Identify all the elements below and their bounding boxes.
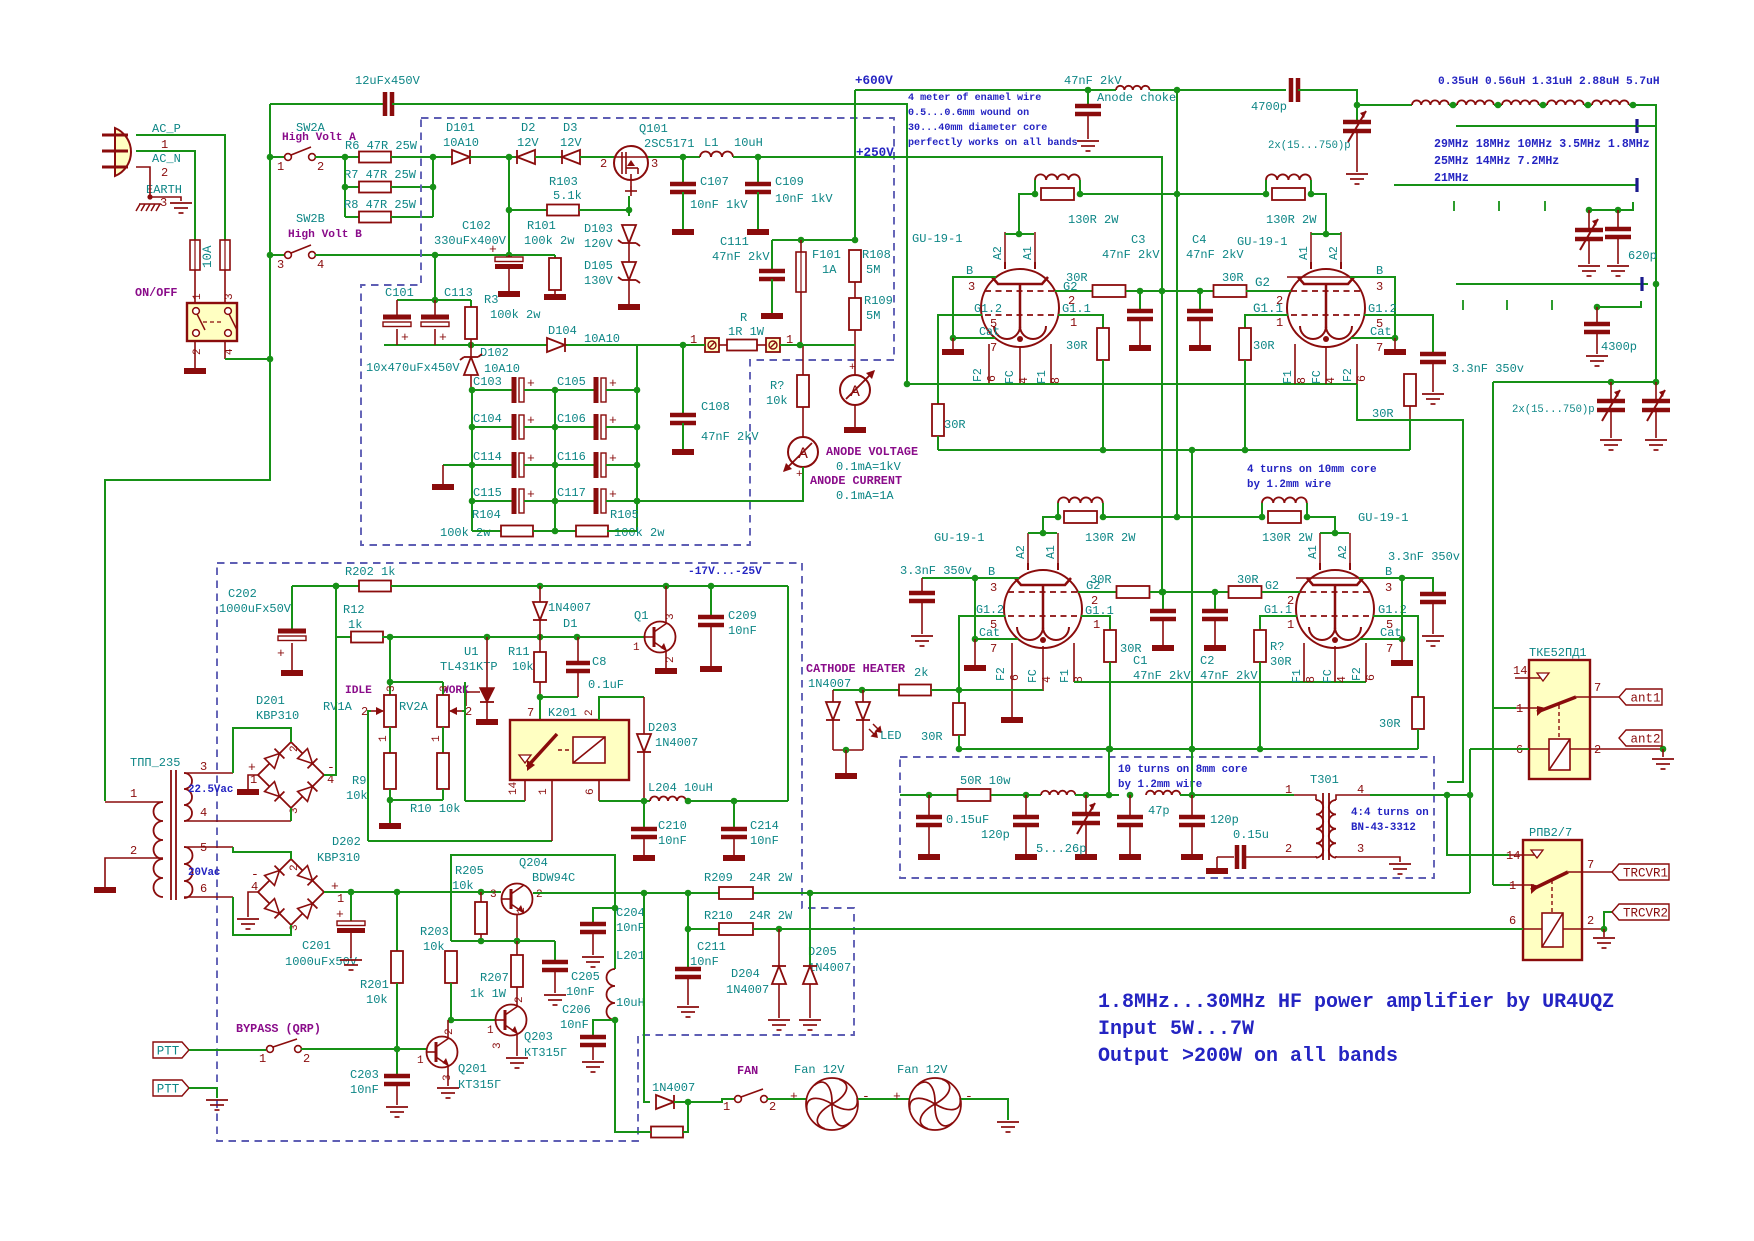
- junction ant bus T301: [1467, 792, 1474, 799]
- wire C2 stem: [1214, 592, 1216, 611]
- ground U1: [476, 719, 498, 725]
- zener D102: [464, 357, 478, 375]
- junction bias t1 g11: [1100, 447, 1107, 454]
- svg-text:7: 7: [990, 341, 997, 355]
- wire meter node: [772, 239, 855, 241]
- junction t4 cat: [1399, 636, 1406, 643]
- resistor 130R t2: [1272, 188, 1305, 200]
- wire t4 B-cat: [1401, 578, 1403, 639]
- svg-text:C209: C209: [728, 609, 757, 623]
- svg-text:100k 2w: 100k 2w: [440, 526, 491, 540]
- svg-text:КТ315Г: КТ315Г: [524, 1046, 567, 1060]
- resistor 30R g2 t1: [1093, 285, 1126, 297]
- wire C111 stem: [771, 240, 773, 271]
- wire Q203 base: [451, 1019, 495, 1021]
- svg-text:Cat: Cat: [1380, 626, 1402, 640]
- svg-text:2: 2: [600, 157, 607, 171]
- TPP pin2 lead: [105, 858, 163, 887]
- resistor R108: [849, 250, 861, 282]
- wire t3 anode join: [1028, 532, 1057, 534]
- svg-text:L1: L1: [704, 136, 718, 150]
- svg-text:BYPASS (QRP): BYPASS (QRP): [236, 1022, 321, 1036]
- resistor 30R g12 t1: [932, 404, 944, 436]
- rpv pin2 wire: [1563, 928, 1604, 930]
- svg-text:G1.2: G1.2: [974, 302, 1002, 316]
- capacitor 0.15uF: [916, 817, 942, 825]
- svg-text:1: 1: [337, 892, 344, 906]
- varcap620 down: [1588, 239, 1590, 264]
- diode D1 1N4007: [533, 602, 547, 620]
- C113 stem top: [434, 300, 436, 315]
- ground 015uF: [918, 854, 940, 860]
- svg-text:2: 2: [1587, 914, 1594, 928]
- ground fan: [997, 1122, 1019, 1132]
- wire tank to chain: [1357, 104, 1412, 106]
- junction F101 top: [798, 237, 805, 244]
- svg-text:C201: C201: [302, 939, 331, 953]
- svg-text:10nF: 10nF: [750, 834, 779, 848]
- wire t1 anode up: [1019, 194, 1035, 234]
- wire mains bus vertical: [269, 104, 271, 359]
- C211 down: [687, 977, 689, 1005]
- t2 F1 pin: [1294, 344, 1296, 384]
- t3 F1 pin: [1073, 643, 1075, 682]
- junction t4 net left: [1259, 514, 1266, 521]
- svg-text:10nF 1kV: 10nF 1kV: [690, 198, 748, 212]
- D205 bot lead: [809, 984, 811, 1018]
- wire heater bus bot: [1074, 681, 1366, 683]
- junction C113 top feed: [432, 252, 439, 259]
- svg-text:3: 3: [968, 280, 975, 294]
- R101 bot lead: [554, 290, 556, 294]
- wire fan res left: [615, 1127, 651, 1132]
- svg-text:F2: F2: [1342, 368, 1355, 382]
- svg-text:1: 1: [259, 1052, 266, 1066]
- wire C106 left: [555, 426, 596, 428]
- svg-text:120p: 120p: [1210, 813, 1239, 827]
- svg-text:0.15uF: 0.15uF: [946, 813, 989, 827]
- junction bank left 390: [469, 387, 476, 394]
- svg-text:4: 4: [200, 806, 207, 820]
- svg-text:C4: C4: [1192, 233, 1206, 247]
- svg-text:10A10: 10A10: [443, 136, 479, 150]
- Q101 gate down: [630, 180, 632, 196]
- svg-text:21MHz: 21MHz: [1434, 172, 1469, 185]
- svg-text:C104: C104: [473, 412, 502, 426]
- resistor 30R cat t2: [1404, 374, 1416, 406]
- C101 stem bot: [396, 329, 398, 345]
- C8 bot lead: [577, 671, 579, 697]
- wire filter mid2: [1180, 794, 1294, 796]
- svg-text:10k: 10k: [366, 993, 388, 1007]
- ground C3: [1129, 345, 1151, 351]
- capacitor 47p: [1117, 817, 1143, 825]
- switch band row3 line: [1456, 283, 1648, 285]
- svg-text:1: 1: [378, 735, 390, 742]
- svg-text:A2: A2: [1015, 545, 1028, 559]
- wire C204 top: [593, 908, 615, 924]
- onoff pin4 lead: [224, 341, 226, 359]
- K201 pin1 lead: [551, 780, 553, 841]
- junction R column left top: [342, 154, 349, 161]
- 120p b stem: [1191, 795, 1193, 817]
- wire C105 right: [606, 389, 637, 391]
- ground C111: [761, 313, 783, 319]
- R109 down: [854, 330, 856, 375]
- ground TPP pin2: [94, 887, 116, 893]
- ground C214: [723, 855, 745, 861]
- svg-text:B: B: [966, 264, 973, 278]
- svg-text:100k 2w: 100k 2w: [614, 526, 665, 540]
- svg-text:+: +: [849, 362, 856, 374]
- wire bias chain down: [1108, 749, 1110, 795]
- relay K201 coil: [573, 737, 605, 763]
- choke cap down: [1087, 114, 1089, 139]
- R? top lead: [802, 345, 804, 375]
- bridge D202 d: [265, 871, 280, 886]
- wire 130R t1 loop: [1034, 180, 1036, 194]
- svg-text:7: 7: [527, 706, 534, 720]
- svg-text:2: 2: [465, 705, 472, 719]
- resistor R101: [549, 258, 561, 290]
- junction rail637 C8: [574, 634, 581, 641]
- svg-text:2: 2: [444, 1028, 456, 1035]
- wire t3 G12: [959, 616, 1005, 703]
- junction R col right top: [430, 154, 437, 161]
- svg-text:+: +: [893, 1089, 901, 1104]
- wire C104 left: [472, 426, 514, 428]
- 47p down: [1129, 825, 1131, 854]
- zener D105: [622, 262, 636, 280]
- junction chain end: [1630, 102, 1637, 109]
- wire t4 B: [1359, 577, 1402, 579]
- 620p stem: [1617, 210, 1619, 229]
- outvarA stem: [1610, 382, 1612, 399]
- svg-text:Q201: Q201: [458, 1062, 487, 1076]
- wire emitter node: [451, 940, 555, 942]
- junction bias3 rq: [1257, 746, 1264, 753]
- diode D203: [637, 734, 651, 752]
- svg-text:C8: C8: [592, 655, 606, 669]
- ground outvarB: [1645, 440, 1667, 450]
- svg-text:47nF 2kV: 47nF 2kV: [1200, 669, 1258, 683]
- 30R t2 down: [1409, 406, 1411, 420]
- wire R210 feed: [688, 893, 719, 929]
- ground zeners: [618, 304, 640, 310]
- svg-text:3: 3: [492, 1042, 504, 1049]
- svg-text:7: 7: [1376, 341, 1383, 355]
- svg-text:F101: F101: [812, 248, 841, 262]
- 4300p stem: [1596, 307, 1598, 324]
- svg-text:+250V: +250V: [856, 146, 894, 160]
- svg-text:G1.1: G1.1: [1062, 302, 1091, 316]
- wire C103 left: [472, 389, 514, 391]
- svg-text:G2: G2: [1265, 579, 1279, 593]
- svg-text:D202: D202: [332, 835, 361, 849]
- variable capacitor out A: [1597, 401, 1625, 410]
- svg-text:R?: R?: [1270, 640, 1284, 654]
- wire rpv pin14 feed: [1447, 795, 1509, 855]
- svg-text:C113: C113: [444, 286, 473, 300]
- RV2A wiper: [450, 710, 462, 712]
- junction 2k g12: [956, 687, 963, 694]
- wire t3 B-cat: [974, 578, 976, 639]
- svg-text:C114: C114: [473, 450, 502, 464]
- junction outvar A: [1608, 379, 1615, 386]
- junction outvar B: [1653, 379, 1660, 386]
- svg-text:6: 6: [1509, 914, 1516, 928]
- ground outvarA: [1600, 440, 1622, 450]
- tke pin2 wire: [1570, 748, 1663, 750]
- C3 down: [1139, 319, 1141, 345]
- resistor 130R t1: [1041, 188, 1074, 200]
- svg-text:TL431KTP: TL431KTP: [440, 660, 498, 674]
- svg-text:1: 1: [516, 907, 528, 914]
- wire heater diodes top: [833, 689, 899, 691]
- t1 F1 pin: [1050, 344, 1052, 384]
- svg-text:LED: LED: [880, 729, 902, 743]
- resistor R9: [384, 753, 396, 789]
- ground 526p: [1075, 854, 1097, 860]
- junction R108 top: [852, 237, 859, 244]
- inductor T301 primary: [1316, 800, 1323, 858]
- capacitor C109: [745, 184, 771, 192]
- svg-text:Cat: Cat: [979, 626, 1000, 640]
- ground C107: [672, 229, 694, 235]
- capacitor C204: [580, 924, 606, 932]
- wire t1 anode join: [1005, 233, 1034, 235]
- wire C4 stem: [1199, 291, 1201, 311]
- svg-text:KBP310: KBP310: [256, 709, 299, 723]
- svg-text:R209: R209: [704, 871, 733, 885]
- inductor 130R t1: [1035, 174, 1080, 180]
- TPP pin6 lead: [184, 896, 233, 898]
- capacitor C211: [675, 969, 701, 977]
- resistor R109: [849, 298, 861, 330]
- wire 12uF left: [270, 103, 385, 105]
- svg-text:7: 7: [990, 642, 997, 656]
- svg-text:R109: R109: [864, 294, 893, 308]
- svg-text:+: +: [609, 376, 617, 391]
- svg-text:+: +: [609, 451, 617, 466]
- svg-text:R205: R205: [455, 864, 484, 878]
- wire C114 right: [524, 464, 555, 466]
- svg-text:5: 5: [200, 841, 207, 855]
- wire C210 stem: [643, 801, 645, 829]
- inductor TPP sec2: [184, 847, 193, 898]
- heater gnd lead: [845, 750, 847, 773]
- svg-text:1: 1: [161, 138, 168, 152]
- svg-text:10x470uFx450V: 10x470uFx450V: [366, 361, 460, 375]
- ground C206: [582, 1062, 604, 1072]
- wire R202-R12: [335, 586, 337, 637]
- R108-R109: [854, 282, 856, 298]
- wire screw-rail right: [780, 344, 855, 346]
- bridge D202 d: [298, 904, 313, 919]
- ground C209: [700, 666, 722, 672]
- wire R7 right: [391, 186, 433, 188]
- switch ON/OFF box: [187, 303, 237, 341]
- junction R201 ptt: [394, 1046, 401, 1053]
- ground t4 cat: [1391, 660, 1413, 666]
- junction R11 C8: [537, 694, 544, 701]
- wire fan2 out: [961, 1099, 1008, 1120]
- capacitor C214: [721, 829, 747, 837]
- 3.3nF t3 stem: [921, 578, 923, 593]
- junction 120p a: [1023, 792, 1030, 799]
- svg-text:10A10: 10A10: [584, 332, 620, 346]
- svg-text:47nF 2kV: 47nF 2kV: [712, 250, 770, 264]
- svg-text:3: 3: [277, 258, 284, 272]
- junction bank left 501: [469, 498, 476, 505]
- wire R201 top: [396, 892, 398, 951]
- svg-text:D204: D204: [731, 967, 760, 981]
- resistor R105: [576, 526, 608, 537]
- resistor R104: [501, 526, 533, 537]
- ground Q1: [655, 668, 677, 674]
- ground 3.3nF t3: [911, 636, 933, 646]
- junction C109: [755, 154, 762, 161]
- wire t4 cat: [1360, 638, 1402, 640]
- svg-text:FAN: FAN: [737, 1064, 758, 1078]
- wire T301 out: [1370, 794, 1470, 796]
- wire D202 in top: [233, 847, 291, 859]
- svg-text:R9: R9: [352, 774, 366, 788]
- junction 47nF choke: [1085, 87, 1092, 94]
- U1 ref lead: [466, 692, 480, 706]
- svg-text:+: +: [527, 487, 535, 502]
- tke pin14 wire: [1515, 677, 1543, 679]
- junction bias bot in: [1189, 746, 1196, 753]
- svg-text:1N4007: 1N4007: [652, 1081, 695, 1095]
- wire Q101 source down: [628, 196, 630, 216]
- svg-text:Q1: Q1: [634, 609, 648, 623]
- wire R9-R10 link: [390, 799, 443, 801]
- D1 bot lead: [539, 620, 541, 637]
- wire chain g3: [1539, 104, 1547, 106]
- svg-text:2: 2: [536, 889, 543, 901]
- junction C4: [1197, 288, 1204, 295]
- wire t1 B: [953, 277, 996, 338]
- junction bias3 mid: [1189, 746, 1196, 753]
- resistor R210: [719, 923, 753, 935]
- ground t2 cat: [1384, 349, 1406, 355]
- svg-text:2: 2: [317, 160, 324, 174]
- wire D3-Q101: [580, 156, 614, 158]
- wire C116 right: [606, 464, 637, 466]
- junction R205 bot: [478, 938, 485, 945]
- hd1 bot: [832, 720, 834, 750]
- capacitor 120p a: [1013, 817, 1039, 825]
- svg-text:30R: 30R: [1066, 339, 1088, 353]
- R205 top lead: [480, 892, 482, 902]
- ground C211: [677, 1007, 699, 1017]
- wire R10 bot: [442, 789, 444, 800]
- svg-text:+: +: [790, 1089, 798, 1104]
- Q203 collector: [516, 1005, 518, 1006]
- svg-text:50R 10w: 50R 10w: [960, 774, 1011, 788]
- junction bank right 427: [634, 424, 641, 431]
- switch SW2A: [285, 154, 292, 161]
- svg-text:R11: R11: [508, 645, 530, 659]
- junction bias3 g12: [956, 746, 963, 753]
- wire t2 F2 down: [1357, 384, 1410, 420]
- switch band row2 contact: [1635, 178, 1638, 192]
- svg-text:KBP310: KBP310: [317, 851, 360, 865]
- svg-text:0.5...0.6mm wound on: 0.5...0.6mm wound on: [908, 107, 1029, 119]
- svg-text:BDW94C: BDW94C: [532, 871, 575, 885]
- switch band row3 contact: [1640, 277, 1643, 291]
- svg-text:B: B: [1376, 264, 1383, 278]
- junction t2 net right: [1308, 191, 1315, 198]
- svg-text:+: +: [439, 330, 447, 345]
- wire bias bus top: [938, 449, 1410, 451]
- svg-text:+: +: [277, 646, 285, 661]
- svg-text:30R: 30R: [1379, 717, 1401, 731]
- svg-text:10nF: 10nF: [658, 834, 687, 848]
- ground D201 plus: [237, 789, 259, 795]
- wire C109 stem: [757, 157, 759, 184]
- junction SW2B in: [267, 252, 274, 259]
- junction HV pump: [506, 154, 513, 161]
- svg-text:C108: C108: [701, 400, 730, 414]
- wire D2-D3: [535, 156, 562, 158]
- svg-text:8: 8: [1305, 676, 1318, 683]
- ground trcvr2: [1593, 938, 1615, 948]
- tube U-top-right GU-19-1: [1287, 262, 1365, 347]
- junction rpv feed: [1444, 792, 1451, 799]
- svg-text:4 meter of enamel wire: 4 meter of enamel wire: [908, 92, 1041, 104]
- 015uF stem: [928, 795, 930, 817]
- capacitor 0.15u: [1237, 845, 1244, 869]
- fuse1 lead: [194, 270, 196, 303]
- svg-text:0.15u: 0.15u: [1233, 828, 1269, 842]
- svg-text:1N4007: 1N4007: [808, 961, 851, 975]
- svg-text:6: 6: [1009, 674, 1022, 681]
- wire t1 G12: [938, 315, 982, 404]
- C102 bot lead: [508, 267, 510, 291]
- ground heater: [835, 773, 857, 779]
- wire +600V vertical: [854, 90, 856, 240]
- hd1 top: [832, 690, 834, 702]
- junction bias3 g11: [1107, 746, 1114, 753]
- wire t3 cat: [975, 638, 1018, 640]
- svg-text:1: 1: [1287, 618, 1294, 632]
- C206 down: [592, 1045, 594, 1060]
- resistor R10: [437, 753, 449, 789]
- svg-text:-: -: [965, 1089, 973, 1104]
- tke pin7 wire: [1576, 696, 1619, 698]
- wire RV2A wiper down: [462, 682, 465, 711]
- svg-text:D1: D1: [563, 617, 577, 631]
- junction bank mid 465: [552, 462, 559, 469]
- svg-text:10k: 10k: [346, 789, 368, 803]
- R11 top lead: [539, 637, 541, 652]
- C102 top lead: [508, 255, 510, 257]
- svg-text:1.8MHz...30MHz HF power amplif: 1.8MHz...30MHz HF power amplifier by UR4…: [1098, 991, 1614, 1014]
- junction rail586 C209: [708, 583, 715, 590]
- junction bank right 390: [634, 387, 641, 394]
- junction R9 R10: [387, 797, 394, 804]
- svg-text:D2: D2: [521, 121, 535, 135]
- svg-text:+: +: [527, 413, 535, 428]
- svg-text:47nF 2kV: 47nF 2kV: [701, 430, 759, 444]
- wire t2 anode join: [1311, 233, 1341, 235]
- svg-text:14: 14: [1513, 664, 1527, 678]
- capacitor 47nF anode: [1075, 106, 1101, 114]
- svg-text:Cat: Cat: [1370, 325, 1392, 339]
- fan motor 1: [803, 1078, 860, 1130]
